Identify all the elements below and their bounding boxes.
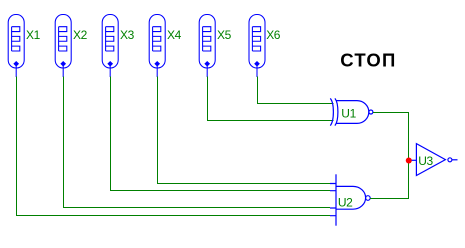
connector X3 (102, 15, 118, 78)
svg-text:U3: U3 (418, 154, 433, 168)
nand gate U2 (330, 174, 370, 225)
inverter U3 (412, 144, 458, 176)
svg-text:СТОП: СТОП (340, 50, 396, 71)
svg-text:X3: X3 (120, 28, 135, 42)
svg-text:X2: X2 (73, 28, 88, 42)
wire X3 to U2 (111, 77, 331, 191)
wire X5 to U1 (208, 77, 334, 121)
svg-text:X6: X6 (266, 28, 281, 42)
connector X1 (8, 15, 24, 78)
connector X4 (149, 15, 165, 78)
svg-text:X5: X5 (217, 28, 232, 42)
xnor gate U1 (330, 98, 373, 125)
wire U2 output (370, 160, 408, 198)
wire X2 to U2 (64, 77, 331, 208)
wire X6 to U1 (258, 77, 334, 104)
wire X4 to U2 (158, 77, 331, 184)
svg-text:X4: X4 (167, 28, 182, 42)
wire X1 to U2 (17, 77, 331, 216)
svg-text:U1: U1 (341, 107, 356, 121)
svg-text:X1: X1 (26, 28, 41, 42)
connector X5 (199, 15, 215, 78)
junction red dot (406, 157, 412, 163)
connector X6 (249, 15, 265, 78)
svg-text:U2: U2 (338, 196, 353, 210)
connector X2 (55, 15, 71, 78)
wire U1 output (373, 113, 408, 161)
